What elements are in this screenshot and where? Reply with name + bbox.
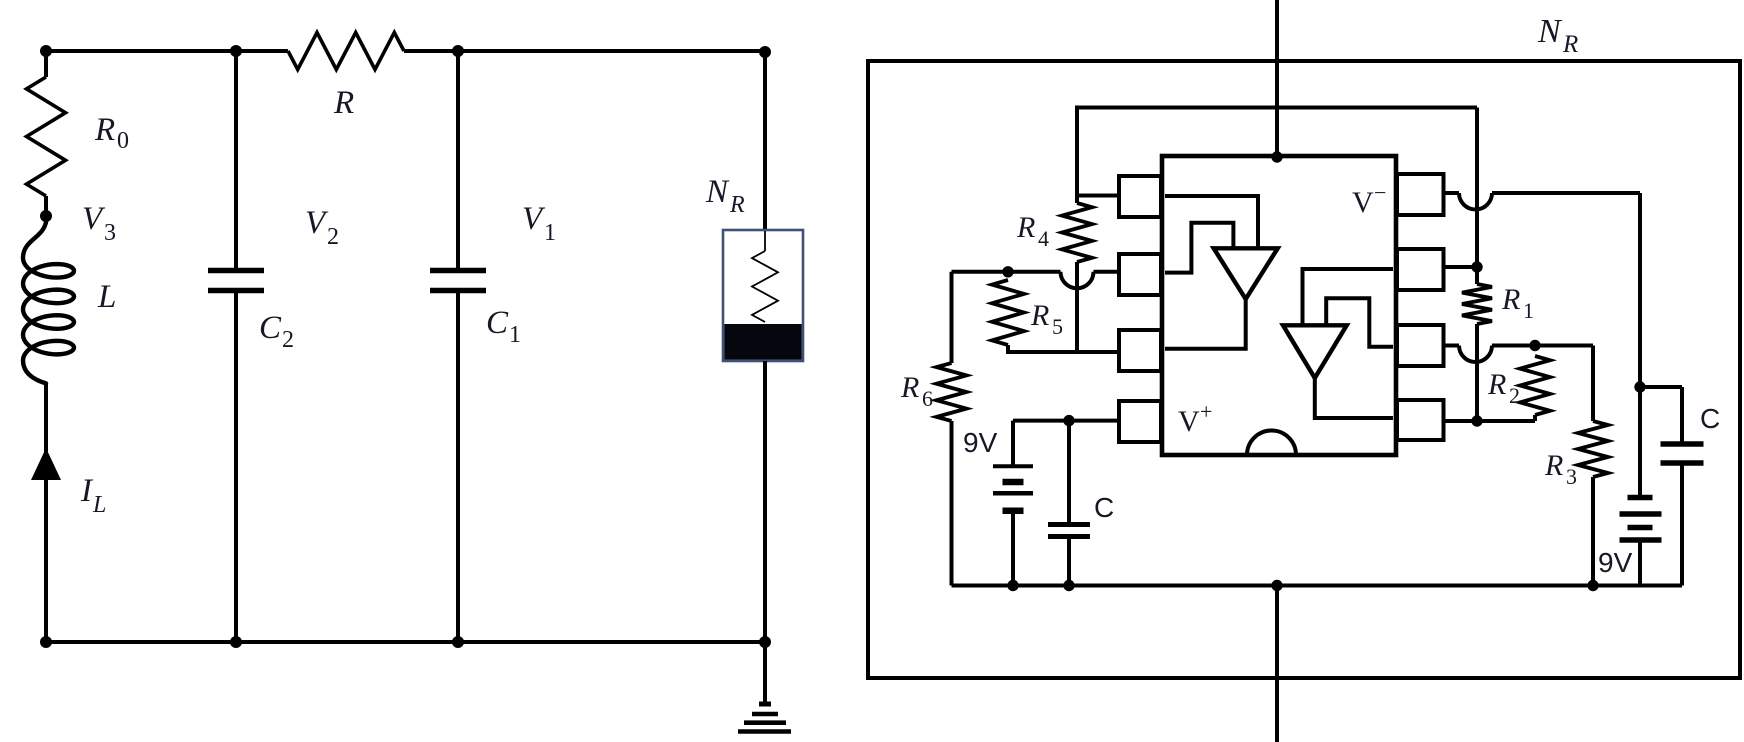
node: C1 bottom	[452, 636, 464, 648]
svg-text:R: R	[94, 112, 115, 148]
capacitor C2	[208, 271, 294, 354]
resistor R1	[1462, 283, 1534, 324]
svg-text:3: 3	[1566, 464, 1577, 489]
battery 9V left	[963, 421, 1033, 586]
svg-text:V: V	[305, 205, 329, 241]
capacitor C1	[430, 271, 521, 349]
svg-text:6: 6	[922, 386, 933, 411]
node: top-left corner	[40, 45, 52, 57]
wire: external terminal bottom	[1275, 586, 1279, 742]
wire: pin 6 lead	[1444, 265, 1478, 269]
node V3	[40, 201, 116, 246]
node: bottom-left corner	[40, 636, 52, 648]
svg-text:4: 4	[1038, 226, 1049, 251]
wire: external terminal top	[1275, 0, 1279, 157]
wire: pin 7 lead with crossover hop	[1444, 346, 1594, 363]
resistor R0	[27, 77, 130, 196]
capacitor C2 branch wire lower	[234, 293, 238, 642]
node: R5 top junction	[1002, 266, 1013, 277]
svg-text:V: V	[82, 201, 106, 237]
wire: R3 to bottom rail	[1591, 477, 1595, 586]
resistor R2	[1487, 356, 1550, 415]
svg-text:9V: 9V	[963, 427, 998, 458]
svg-text:2: 2	[282, 327, 294, 353]
svg-text:C: C	[259, 310, 282, 346]
label V-	[1352, 180, 1386, 219]
svg-text:C: C	[486, 305, 509, 341]
node V1 label	[522, 201, 556, 246]
wire: pin 4 lead (V+ supply)	[1013, 419, 1119, 423]
node: NR top corner	[759, 46, 771, 58]
capacitor C1 branch wire upper	[456, 51, 460, 268]
node: bottom rail external junction	[1271, 580, 1282, 591]
svg-text:N: N	[1537, 13, 1563, 50]
IC left pin 1	[1119, 176, 1161, 217]
wire: R0 to node V3	[44, 196, 48, 224]
wire: pin 1 lead (to R4 top)	[1077, 194, 1119, 198]
svg-text:R: R	[729, 192, 745, 218]
node: pin 8 junction	[1471, 415, 1482, 426]
wire: pin 5 lead with crossover hop (V- rail)	[1444, 193, 1641, 210]
op-amp A1	[1165, 196, 1278, 349]
capacitor C2 branch wire upper	[234, 51, 238, 268]
node: NR bottom junction	[759, 636, 771, 648]
battery 9V right	[1598, 387, 1662, 586]
svg-text:V: V	[1352, 186, 1374, 219]
op-amp IC package U1	[1162, 156, 1396, 455]
wire: internal bottom rail	[952, 584, 1683, 588]
capacitor C left	[1048, 421, 1114, 586]
wire: NR branch lower	[763, 361, 767, 642]
IC left pin 3	[1119, 330, 1161, 371]
svg-text:R: R	[1544, 449, 1563, 482]
IC right pin 6	[1397, 249, 1444, 290]
capacitor C1 branch wire lower	[456, 293, 460, 642]
current arrow IL	[31, 448, 106, 518]
IC left pin 2	[1119, 254, 1161, 295]
svg-text:V: V	[522, 201, 546, 237]
svg-text:R: R	[1487, 368, 1506, 401]
wire: top rail left segment	[46, 49, 288, 53]
wire: R6 to bottom rail	[950, 421, 954, 586]
wire: R4 bottom to pin3 rail	[1075, 262, 1079, 352]
resistor R3	[1544, 421, 1608, 489]
wire: R1 bottom to pin8 rail	[1475, 324, 1479, 421]
op-amp A2	[1283, 269, 1393, 418]
svg-text:L: L	[97, 279, 116, 315]
svg-text:R: R	[1030, 299, 1049, 332]
svg-text:9V: 9V	[1598, 547, 1633, 578]
wire: left branch down to R6	[950, 272, 954, 363]
IC right pin 7	[1397, 325, 1444, 366]
IC right pin 8	[1397, 400, 1444, 440]
wire: inductor to bottom rail	[44, 383, 48, 642]
svg-text:C: C	[1094, 492, 1114, 523]
node: battery/cap junction right	[1634, 381, 1645, 392]
svg-text:C: C	[1700, 403, 1720, 434]
svg-text:−: −	[1374, 180, 1386, 205]
wire: V- rail vertical	[1638, 193, 1642, 387]
wire: ground stub	[763, 642, 767, 704]
ground	[738, 704, 791, 732]
node V2 label	[305, 205, 339, 250]
svg-text:I: I	[80, 473, 94, 509]
wire: pin 2 lead with crossover hop	[952, 272, 1120, 289]
svg-text:N: N	[705, 174, 730, 210]
svg-text:R: R	[1501, 283, 1520, 316]
svg-text:1: 1	[509, 322, 521, 348]
resistor R5	[992, 280, 1063, 345]
wire: R3 top column	[1591, 346, 1595, 422]
resistor R6	[900, 363, 967, 421]
resistor R4	[1016, 203, 1092, 262]
node: C2 bottom	[230, 636, 242, 648]
Chua diode NR (boxed nonlinear resistor)	[705, 174, 803, 361]
wire: left branch top stub	[44, 51, 48, 77]
node: cap bottom left	[1063, 580, 1074, 591]
svg-text:0: 0	[117, 128, 129, 154]
svg-text:5: 5	[1052, 314, 1063, 339]
node: battery bottom left	[1007, 580, 1018, 591]
svg-text:2: 2	[1509, 383, 1520, 408]
label V+	[1178, 399, 1212, 438]
inductor L	[23, 222, 116, 383]
node: pin 6 junction	[1471, 261, 1482, 272]
resistor R (series, top rail)	[288, 33, 404, 122]
IC left pin 4	[1119, 401, 1161, 442]
node: R2 top junction	[1529, 340, 1540, 351]
wire: NR branch upper	[763, 51, 767, 231]
wire: top rail right segment	[404, 49, 765, 53]
capacitor C right	[1640, 387, 1720, 586]
svg-text:R: R	[1016, 211, 1035, 244]
wire: feedback loop top	[1077, 108, 1477, 204]
wire: pin 8 lead rail	[1444, 419, 1536, 423]
node: battery/cap junction left	[1063, 415, 1074, 426]
node: C2 top	[230, 45, 242, 57]
wire: pin 3 lead (R5/R4 bottoms)	[1008, 345, 1119, 352]
svg-text:L: L	[92, 492, 106, 518]
node: C1 top	[452, 45, 464, 57]
wire: R2 bottom stub	[1533, 415, 1537, 421]
svg-text:3: 3	[104, 220, 116, 246]
svg-text:R: R	[333, 85, 354, 121]
svg-text:1: 1	[544, 220, 556, 246]
svg-text:1: 1	[1523, 298, 1534, 323]
label NR (subcircuit title)	[1537, 13, 1578, 58]
svg-text:+: +	[1200, 399, 1212, 424]
IC right pin 5	[1397, 174, 1444, 215]
node: IC top supply junction	[1271, 151, 1282, 162]
wire: bottom rail	[46, 640, 765, 644]
svg-text:V: V	[1178, 405, 1200, 438]
svg-text:2: 2	[327, 224, 339, 250]
NR subcircuit outer box	[868, 61, 1740, 678]
svg-text:R: R	[900, 371, 919, 404]
svg-text:R: R	[1562, 31, 1578, 58]
node: R3 bottom junction	[1587, 580, 1598, 591]
wire: right feedback vertical / R1 column	[1475, 108, 1479, 285]
